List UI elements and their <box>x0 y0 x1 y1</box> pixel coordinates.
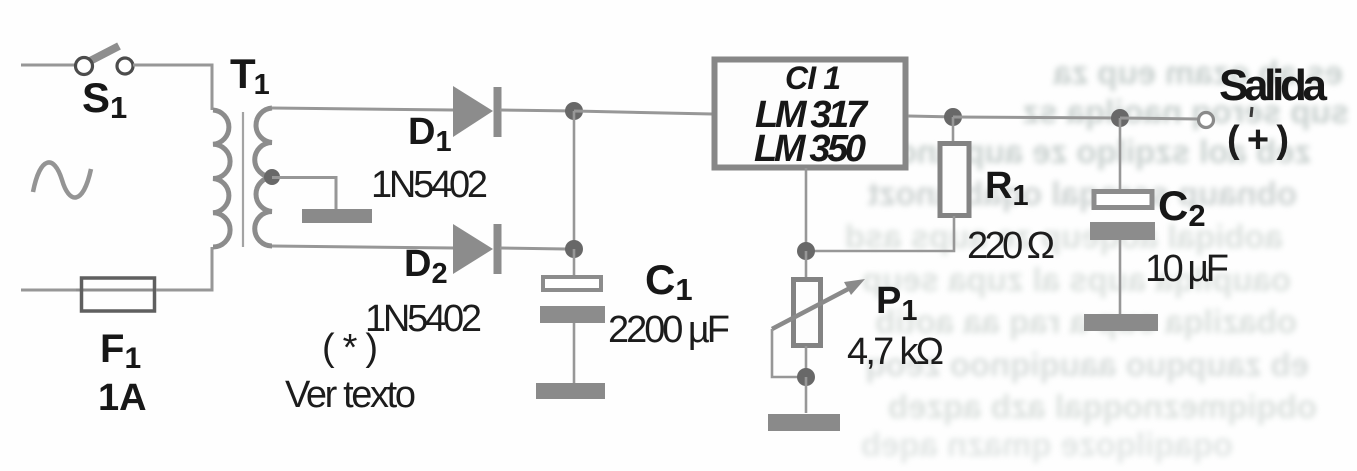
transformer T1 primary winding <box>213 110 230 247</box>
wire: switch to transformer primary top <box>133 65 212 110</box>
svg-text:( + ): ( + ) <box>1227 119 1289 161</box>
ground (C2) <box>1084 314 1158 331</box>
wire: D2 cathode to node B <box>500 248 566 249</box>
wire: D1 cathode to node A <box>500 110 576 111</box>
ground (P1) <box>768 414 840 431</box>
fuse F1 <box>76 278 160 311</box>
label 10 uF <box>1145 248 1229 290</box>
label ( + ) <box>1227 107 1289 161</box>
op-amp U1 regulator box CI1 <box>715 60 906 168</box>
svg-text:CI 1: CI 1 <box>785 60 841 96</box>
diode D2 <box>453 224 502 274</box>
label 1A <box>98 377 147 419</box>
svg-text:obqiqmeznoqqal azb aqzeb: obqiqmeznoqqal azb aqzeb <box>888 388 1317 425</box>
wire: node D to capacitor C2 <box>1119 118 1122 191</box>
label 1N5402 (D2) <box>365 298 482 340</box>
AC source symbol <box>33 162 91 197</box>
wire: P1 wiper to node F <box>772 329 806 377</box>
wire: center tap to ground <box>272 178 336 211</box>
label CI 1 <box>785 60 841 96</box>
label 2200 uF <box>608 309 730 351</box>
wire: node B to capacitor C1 <box>573 249 576 277</box>
transformer T1 core <box>242 112 244 247</box>
wire: node A to node B vertical <box>573 111 576 249</box>
capacitor C2 <box>1090 192 1155 241</box>
diode D1 <box>453 86 502 137</box>
node F (P1 ground node) <box>797 368 815 386</box>
wire: fuse to transformer primary bottom <box>156 247 212 290</box>
svg-text:1N5402: 1N5402 <box>365 298 482 340</box>
capacitor C1 <box>540 277 605 323</box>
output terminal <box>1199 113 1214 128</box>
label S1 <box>82 74 127 125</box>
ground (center tap) <box>302 209 372 223</box>
wire: C2 to ground <box>1119 240 1122 314</box>
wire: P1 bottom to node F <box>805 346 808 377</box>
node D (output node) <box>1111 109 1129 127</box>
potentiometer P1 <box>772 279 865 346</box>
background bleed-through text <box>845 54 1349 463</box>
label P1 <box>876 280 918 327</box>
label T1 <box>230 50 270 101</box>
node B (D2 junction) <box>565 240 583 258</box>
label Ver texto <box>285 374 416 416</box>
node C (regulator output) <box>944 108 962 126</box>
transformer T1 secondary winding <box>255 108 272 246</box>
svg-text:1N5402: 1N5402 <box>371 164 488 206</box>
svg-text:220 Ω: 220 Ω <box>967 225 1055 267</box>
wire: regulator adj to node E <box>805 168 808 251</box>
wire: node A to regulator input <box>574 111 712 114</box>
svg-text:obnaup seroqal oqab anozt: obnaup seroqal oqab anozt <box>868 175 1297 212</box>
wire: node C to resistor R1 <box>952 117 955 143</box>
ground (C1) <box>536 383 605 399</box>
svg-text:Ver texto: Ver texto <box>285 374 416 416</box>
svg-text:4,7 kΩ: 4,7 kΩ <box>847 331 944 373</box>
wire: secondary bottom to diode D2 <box>272 246 454 248</box>
label 220 ohm <box>967 225 1055 267</box>
svg-text:1A: 1A <box>98 377 147 419</box>
svg-text:2200 µF: 2200 µF <box>608 309 730 351</box>
svg-text:oqaqilqoze qmazn aqeb: oqaqilqoze qmazn aqeb <box>861 426 1233 463</box>
svg-text:( * ): ( * ) <box>322 327 378 369</box>
wire: AC live input to switch <box>21 64 76 67</box>
wire: R1 bottom to node E <box>807 216 954 251</box>
wire: regulator output to node C <box>908 116 956 117</box>
svg-text:Salida: Salida <box>1219 61 1328 110</box>
node A (rectifier output) <box>565 102 583 120</box>
wire: node F to ground <box>805 377 808 413</box>
wire: secondary top to diode D1 <box>272 108 453 110</box>
svg-text:LM 350: LM 350 <box>754 128 866 170</box>
label LM 317 <box>755 94 869 136</box>
label C1 <box>645 256 693 307</box>
label ( * ) <box>322 327 378 369</box>
label LM 350 <box>754 128 866 170</box>
wire: node C to node D <box>953 117 1120 118</box>
label D1 <box>408 111 452 158</box>
label R1 <box>985 165 1029 212</box>
switch S1 <box>76 46 134 75</box>
label D2 <box>404 243 448 290</box>
wire: node D to output terminal <box>1120 118 1198 119</box>
label C2 <box>1158 182 1206 233</box>
node: transformer center tap <box>264 169 280 185</box>
label F1 <box>100 327 141 375</box>
svg-text:10 µF: 10 µF <box>1145 248 1229 290</box>
wire: C1 to ground <box>573 323 576 383</box>
node E (adj node) <box>797 242 815 260</box>
wire: AC neutral input to fuse <box>21 289 82 292</box>
label Salida <box>1219 61 1328 110</box>
wire: node E to potentiometer P1 <box>805 251 808 279</box>
label 1N5402 (D1) <box>371 164 488 206</box>
label 4,7 kohm <box>847 331 944 373</box>
resistor R1 <box>940 144 969 216</box>
